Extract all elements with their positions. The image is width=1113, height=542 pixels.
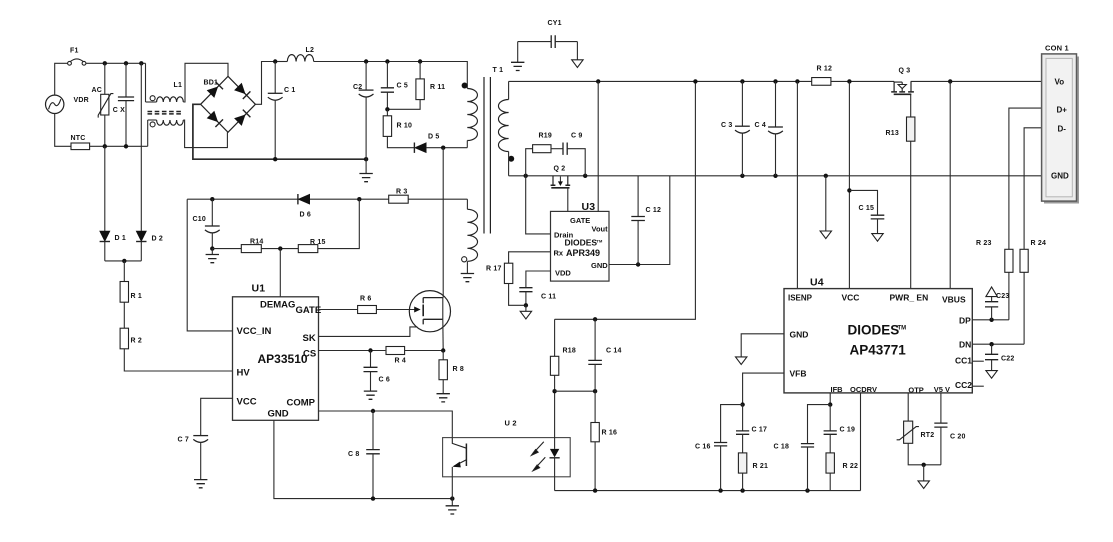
opto transistor — [452, 438, 466, 468]
svg-text:R 15: R 15 — [310, 239, 326, 246]
resistor R19 — [533, 145, 551, 153]
resistor R24 — [1020, 249, 1028, 272]
wire GND rail — [509, 175, 1042, 177]
svg-text:C2: C2 — [353, 84, 362, 91]
wire — [509, 252, 551, 263]
ground — [520, 311, 531, 319]
svg-text:C 17: C 17 — [752, 427, 768, 434]
wire — [125, 63, 127, 97]
wire — [742, 434, 744, 453]
connector CON1 — [1042, 54, 1079, 204]
wire — [365, 97, 367, 173]
wire — [147, 120, 149, 146]
junction — [847, 188, 851, 192]
wire — [146, 101, 157, 103]
wire — [910, 94, 912, 117]
junction — [989, 342, 993, 346]
svg-text:C 3: C 3 — [721, 122, 733, 129]
junction — [740, 79, 744, 83]
wire — [125, 101, 127, 147]
junction — [139, 61, 143, 65]
svg-text:VFB: VFB — [790, 369, 807, 379]
resistor R17 — [504, 263, 512, 283]
ground — [364, 391, 377, 399]
svg-text:C 14: C 14 — [606, 348, 622, 355]
transformer primary winding — [467, 89, 477, 141]
svg-text:L2: L2 — [306, 47, 315, 54]
svg-text:R14: R14 — [250, 239, 263, 246]
svg-text:R 3: R 3 — [396, 189, 408, 196]
wire — [972, 319, 1009, 321]
wire — [319, 411, 453, 438]
op-amp U3 APR349 body — [551, 211, 610, 281]
resistor R18 — [550, 356, 558, 375]
wire — [466, 261, 468, 273]
wire — [419, 62, 421, 79]
phase dot — [508, 156, 514, 162]
wire — [275, 61, 287, 63]
svg-text:R 4: R 4 — [395, 358, 407, 365]
wire — [525, 292, 527, 306]
op-amp U1 AP33510 body — [233, 297, 319, 421]
wire — [741, 334, 784, 357]
junction — [364, 157, 368, 161]
wire — [1008, 272, 1010, 320]
capacitor C10 — [205, 225, 220, 227]
wire — [949, 81, 951, 288]
svg-text:C23: C23 — [996, 293, 1009, 300]
wire — [525, 305, 527, 311]
wire — [442, 148, 444, 298]
resistor R22 — [826, 453, 834, 473]
svg-text:SK: SK — [303, 333, 316, 344]
resistor R12 — [812, 78, 831, 86]
junction — [524, 303, 528, 307]
svg-text:R19: R19 — [539, 133, 552, 140]
svg-text:F1: F1 — [70, 48, 79, 55]
wire — [555, 41, 577, 43]
svg-text:C 5: C 5 — [397, 83, 409, 90]
junction — [740, 174, 744, 178]
wire — [212, 248, 241, 250]
thermistor NTC — [71, 143, 90, 150]
svg-text:R 10: R 10 — [397, 123, 413, 130]
svg-text:R 23: R 23 — [976, 240, 992, 247]
bridge rectifier BD1 — [201, 76, 256, 132]
resistor R1 — [120, 282, 128, 303]
junction — [824, 174, 828, 178]
wire — [466, 141, 468, 148]
svg-text:R 1: R 1 — [131, 293, 143, 300]
wire — [319, 309, 358, 311]
wire — [372, 454, 374, 499]
ground — [872, 234, 883, 242]
svg-text:R 21: R 21 — [753, 463, 769, 470]
wire — [554, 375, 556, 391]
wire — [140, 242, 142, 261]
svg-text:C 20: C 20 — [950, 434, 966, 441]
optocoupler U2 body — [443, 438, 571, 477]
svg-text:R 16: R 16 — [602, 430, 618, 437]
core L1 — [148, 112, 184, 114]
ground — [736, 357, 747, 365]
junction — [636, 262, 640, 266]
capacitor C12 — [631, 217, 645, 221]
junction — [122, 259, 126, 263]
svg-text:C 7: C 7 — [178, 437, 190, 444]
junction — [583, 174, 587, 178]
junction — [441, 146, 445, 150]
wire — [426, 147, 467, 149]
svg-text:VCC_IN: VCC_IN — [237, 326, 272, 337]
junction — [847, 79, 851, 83]
wire — [1009, 108, 1042, 249]
junction — [948, 79, 952, 83]
ground — [986, 371, 997, 379]
wire — [594, 364, 596, 391]
svg-text:COMP: COMP — [287, 398, 316, 409]
junction — [805, 488, 809, 492]
wire — [576, 42, 578, 60]
junction — [740, 402, 744, 406]
svg-text:CC2: CC2 — [955, 380, 972, 390]
wire — [637, 176, 639, 217]
wire — [991, 307, 993, 320]
resistor R15 — [298, 245, 318, 253]
wire — [907, 393, 909, 421]
wire — [972, 360, 984, 362]
wire — [741, 81, 743, 126]
capacitor C20 — [934, 423, 947, 427]
wire — [319, 327, 418, 337]
svg-text:U 2: U 2 — [505, 419, 517, 428]
junction — [828, 402, 832, 406]
svg-text:U3: U3 — [582, 201, 596, 213]
ground — [511, 62, 524, 70]
wire — [796, 81, 798, 288]
wire — [526, 149, 533, 176]
wire — [923, 465, 925, 481]
svg-text:R 24: R 24 — [1031, 240, 1047, 247]
transistor Q3 — [891, 81, 914, 94]
wire — [829, 473, 831, 491]
wire — [807, 447, 809, 491]
svg-text:D 6: D 6 — [300, 212, 312, 219]
wire — [877, 219, 879, 234]
svg-text:R 2: R 2 — [131, 338, 143, 345]
capacitor CY1 — [551, 35, 555, 48]
resistor R3 — [389, 195, 409, 203]
capacitor CX — [118, 97, 134, 101]
wire — [451, 467, 453, 499]
wire — [376, 309, 416, 311]
svg-text:R 11: R 11 — [430, 84, 445, 91]
svg-text:C 12: C 12 — [646, 207, 662, 214]
inductor L1 bottom winding — [157, 120, 184, 125]
svg-text:R13: R13 — [886, 130, 899, 137]
wire — [386, 92, 388, 109]
wire — [55, 63, 68, 95]
wire — [1024, 128, 1042, 250]
junction — [103, 144, 107, 148]
wire — [554, 458, 556, 491]
junction — [371, 409, 375, 413]
capacitor C8 — [366, 450, 380, 454]
transformer core — [484, 77, 490, 234]
wire — [555, 81, 696, 319]
svg-text:C 1: C 1 — [284, 87, 296, 94]
wire — [279, 249, 281, 297]
bridge diode top-left — [207, 87, 218, 98]
svg-text:VCC: VCC — [842, 293, 860, 303]
svg-text:D 5: D 5 — [428, 134, 440, 141]
wire — [609, 176, 670, 265]
junction — [524, 174, 528, 178]
thermistor RT2 — [897, 421, 919, 443]
junction — [124, 144, 128, 148]
svg-text:DIODES: DIODES — [565, 238, 598, 248]
svg-text:R 17: R 17 — [486, 266, 502, 273]
capacitor C1 — [268, 92, 283, 94]
junction — [418, 59, 422, 63]
svg-text:AP33510: AP33510 — [258, 352, 308, 366]
junction — [795, 79, 799, 83]
svg-text:L1: L1 — [174, 82, 183, 89]
wire — [742, 405, 744, 431]
wire — [365, 62, 367, 91]
wire — [594, 391, 596, 422]
svg-text:VCC: VCC — [237, 397, 257, 408]
wire — [991, 296, 993, 301]
svg-text:VBUS: VBUS — [942, 295, 966, 305]
svg-text:C22: C22 — [1001, 356, 1014, 363]
wire — [940, 393, 942, 423]
wire — [104, 63, 106, 94]
wire — [386, 109, 388, 116]
wire — [860, 393, 862, 491]
capacitor C2 — [359, 89, 374, 91]
svg-text:APR349: APR349 — [566, 248, 600, 258]
svg-text:Vo: Vo — [1055, 78, 1065, 87]
svg-text:Vout: Vout — [592, 225, 609, 234]
transistor Q1 — [409, 291, 450, 332]
svg-text:C 9: C 9 — [571, 133, 583, 140]
wire — [319, 350, 386, 352]
transformer secondary winding — [498, 100, 508, 152]
wire — [145, 63, 147, 102]
svg-text:VDR: VDR — [74, 97, 89, 104]
svg-text:U1: U1 — [252, 283, 266, 295]
capacitor C22 — [985, 354, 998, 359]
wire — [848, 81, 850, 288]
svg-text:D-: D- — [1058, 125, 1067, 134]
wire — [104, 242, 106, 261]
ground — [918, 481, 929, 489]
resistor R10 — [383, 116, 391, 137]
wire — [104, 115, 106, 146]
wire — [104, 146, 106, 231]
junction — [124, 61, 128, 65]
resistor R4 — [386, 347, 405, 355]
svg-text:PWR_ EN: PWR_ EN — [890, 292, 929, 302]
inductor L2 — [287, 55, 313, 62]
wire — [466, 199, 468, 209]
wire — [594, 442, 596, 491]
junction — [385, 107, 389, 111]
svg-text:C X: C X — [113, 107, 125, 114]
wire — [808, 405, 831, 444]
wire — [940, 427, 942, 465]
wire — [720, 446, 722, 491]
wire — [517, 42, 519, 63]
wire — [991, 344, 993, 354]
svg-text:R 8: R 8 — [453, 366, 465, 373]
wire — [508, 152, 510, 176]
svg-text:OCDRV: OCDRV — [850, 385, 877, 394]
capacitor C6 — [364, 367, 378, 371]
wire — [255, 62, 275, 105]
wire — [105, 260, 142, 262]
wire — [743, 373, 784, 405]
wire — [972, 385, 984, 387]
svg-text:AP43771: AP43771 — [850, 343, 907, 358]
junction — [385, 59, 389, 63]
transformer aux winding — [467, 209, 477, 261]
wire — [451, 499, 453, 506]
wire — [1023, 272, 1025, 344]
wire — [314, 62, 468, 89]
resistor R14 — [241, 245, 261, 253]
junction — [989, 318, 993, 322]
svg-text:V5 V: V5 V — [934, 385, 950, 394]
svg-text:R 12: R 12 — [817, 66, 833, 73]
wire — [187, 199, 232, 331]
wire — [442, 319, 444, 350]
svg-text:C 4: C 4 — [755, 122, 767, 129]
wire — [555, 490, 861, 492]
op-amp U4 AP43771 body — [784, 289, 972, 393]
svg-text:ISENP: ISENP — [788, 294, 813, 303]
wire — [123, 261, 125, 282]
wire — [370, 351, 372, 368]
wire — [148, 119, 157, 121]
resistor R13 — [907, 117, 915, 141]
svg-text:C 15: C 15 — [859, 205, 875, 212]
opto LED — [550, 449, 559, 458]
capacitor C14 — [588, 360, 602, 364]
resistor R11 — [416, 79, 424, 100]
junction — [210, 197, 214, 201]
phase dot — [462, 257, 467, 262]
junction — [278, 246, 282, 250]
svg-text:OTP: OTP — [908, 385, 923, 394]
wire — [567, 188, 569, 212]
wire — [211, 233, 213, 248]
ground — [437, 394, 450, 402]
wire — [908, 443, 941, 465]
wire — [183, 120, 227, 148]
svg-text:Rx: Rx — [554, 249, 564, 258]
svg-text:C 11: C 11 — [541, 294, 556, 301]
ground — [206, 255, 219, 263]
svg-text:C 18: C 18 — [774, 444, 790, 451]
wire — [372, 411, 374, 450]
wire — [825, 176, 827, 231]
wire DC- rail — [193, 104, 366, 159]
capacitor C4 — [768, 126, 783, 128]
wire — [387, 100, 420, 110]
ground — [572, 60, 583, 68]
ground — [461, 274, 474, 282]
junction — [210, 246, 214, 250]
junction — [103, 61, 107, 65]
diode D5 — [415, 143, 426, 152]
wire — [594, 319, 596, 360]
wire — [55, 114, 71, 147]
junction — [693, 79, 697, 83]
junction — [740, 488, 744, 492]
svg-text:AC: AC — [92, 87, 103, 94]
svg-text:VDD: VDD — [555, 269, 571, 278]
wire — [442, 351, 444, 360]
ground — [446, 506, 459, 514]
wire — [518, 41, 552, 43]
phase dot — [462, 83, 468, 89]
capacitor C16 — [714, 443, 727, 446]
wire — [742, 473, 744, 491]
wire — [140, 63, 142, 231]
wire — [829, 393, 831, 405]
svg-text:NTC: NTC — [71, 135, 86, 142]
wire — [829, 405, 831, 431]
svg-text:GATE: GATE — [296, 305, 322, 316]
capacitor C3 — [735, 125, 750, 127]
gate arrowhead — [414, 307, 420, 313]
wire — [554, 391, 556, 449]
junction — [593, 389, 597, 393]
wire — [442, 380, 444, 394]
junction — [273, 59, 277, 63]
junction — [273, 157, 277, 161]
AC source — [46, 95, 64, 113]
svg-text:C 19: C 19 — [840, 427, 856, 434]
capacitor C7 — [193, 435, 208, 437]
svg-text:DN: DN — [959, 340, 971, 350]
wire — [211, 249, 213, 255]
wire — [637, 221, 639, 265]
ground — [194, 480, 207, 488]
wire — [508, 81, 510, 99]
wire — [261, 248, 298, 250]
resistor R8 — [439, 360, 447, 380]
wire — [274, 420, 452, 498]
phase dot — [150, 96, 155, 101]
wire — [387, 136, 414, 147]
svg-text:GND: GND — [1051, 172, 1069, 181]
wire — [370, 372, 372, 391]
light arrows — [532, 442, 546, 471]
svg-text:DP: DP — [959, 315, 971, 325]
junction — [773, 79, 777, 83]
svg-text:RT2: RT2 — [921, 432, 935, 439]
capacitor C23 — [985, 302, 998, 307]
svg-text:Q 3: Q 3 — [899, 68, 911, 75]
junction — [450, 496, 454, 500]
svg-text:U4: U4 — [810, 277, 824, 289]
svg-text:CY1: CY1 — [548, 20, 562, 27]
resistor R2 — [120, 328, 128, 349]
wire VBUS rail right — [911, 80, 1042, 82]
